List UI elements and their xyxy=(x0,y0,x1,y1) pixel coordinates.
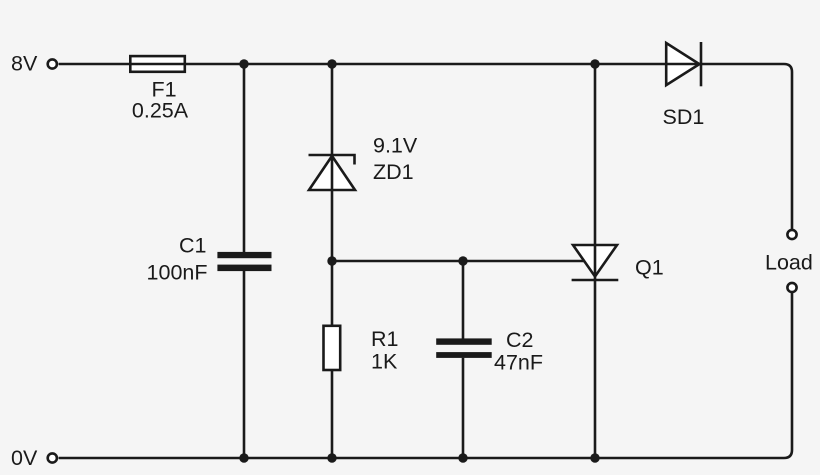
svg-text:0V: 0V xyxy=(11,446,38,470)
svg-text:0.25A: 0.25A xyxy=(132,99,189,123)
junction dot top rail C1 xyxy=(239,59,248,68)
svg-text:47nF: 47nF xyxy=(494,351,543,375)
wire R1 branch lower xyxy=(331,370,334,458)
junction dot gate rail ZD1/R1 xyxy=(327,256,336,265)
capacitor C1 bottom plate xyxy=(217,265,271,272)
junction dot bottom rail Q1 xyxy=(590,453,599,462)
wire top rail from 8V terminal through F1 and SD1 to right corner down to Load xyxy=(59,64,792,230)
zener ZD1 cathode bar with hook xyxy=(309,155,355,165)
capacitor C2 bottom plate xyxy=(436,352,492,358)
svg-text:9.1V: 9.1V xyxy=(373,134,418,158)
wire ZD1/R1 branch upper (through ZD1) xyxy=(331,64,334,326)
terminal 0V xyxy=(48,453,57,462)
capacitor C1 top plate xyxy=(217,252,271,258)
junction dot bottom rail C2 xyxy=(458,453,467,462)
wire gate rail to Q1 xyxy=(332,260,584,263)
diode SD1 cathode bar xyxy=(700,42,703,86)
svg-text:SD1: SD1 xyxy=(663,105,705,129)
diode SD1 body xyxy=(666,43,699,85)
junction dot top rail ZD1 xyxy=(327,59,336,68)
svg-text:8V: 8V xyxy=(11,52,38,76)
zener diode ZD1 body xyxy=(309,156,355,190)
svg-text:1K: 1K xyxy=(371,350,398,374)
terminal Load bottom xyxy=(787,283,796,292)
thyristor Q1 body xyxy=(573,245,617,277)
junction dot top rail Q1 xyxy=(590,59,599,68)
svg-text:Load: Load xyxy=(765,251,813,275)
capacitor C2 top plate xyxy=(436,338,492,344)
svg-text:C2: C2 xyxy=(506,328,533,352)
svg-text:R1: R1 xyxy=(371,327,398,351)
svg-text:ZD1: ZD1 xyxy=(373,160,414,184)
wire C2 branch upper xyxy=(462,261,465,339)
wire Q1 branch (through Q1) xyxy=(594,64,597,458)
junction dot bottom rail C1 xyxy=(239,453,248,462)
terminal 8V xyxy=(48,59,57,68)
thyristor Q1 cathode bar xyxy=(572,279,619,282)
svg-text:100nF: 100nF xyxy=(147,261,208,285)
fuse F1 body xyxy=(130,56,185,72)
wire C1 branch lower xyxy=(243,271,246,458)
svg-text:Q1: Q1 xyxy=(635,256,664,280)
resistor R1 body xyxy=(324,326,341,370)
svg-text:C1: C1 xyxy=(179,233,206,257)
wire C2 branch lower xyxy=(462,358,465,458)
terminal Load top xyxy=(787,230,796,239)
wire bottom rail from 0V terminal to right corner up to Load bottom xyxy=(59,293,792,458)
junction dot bottom rail R1 xyxy=(327,453,336,462)
junction dot gate rail C2 xyxy=(458,256,467,265)
wire C1 branch upper xyxy=(243,64,246,252)
